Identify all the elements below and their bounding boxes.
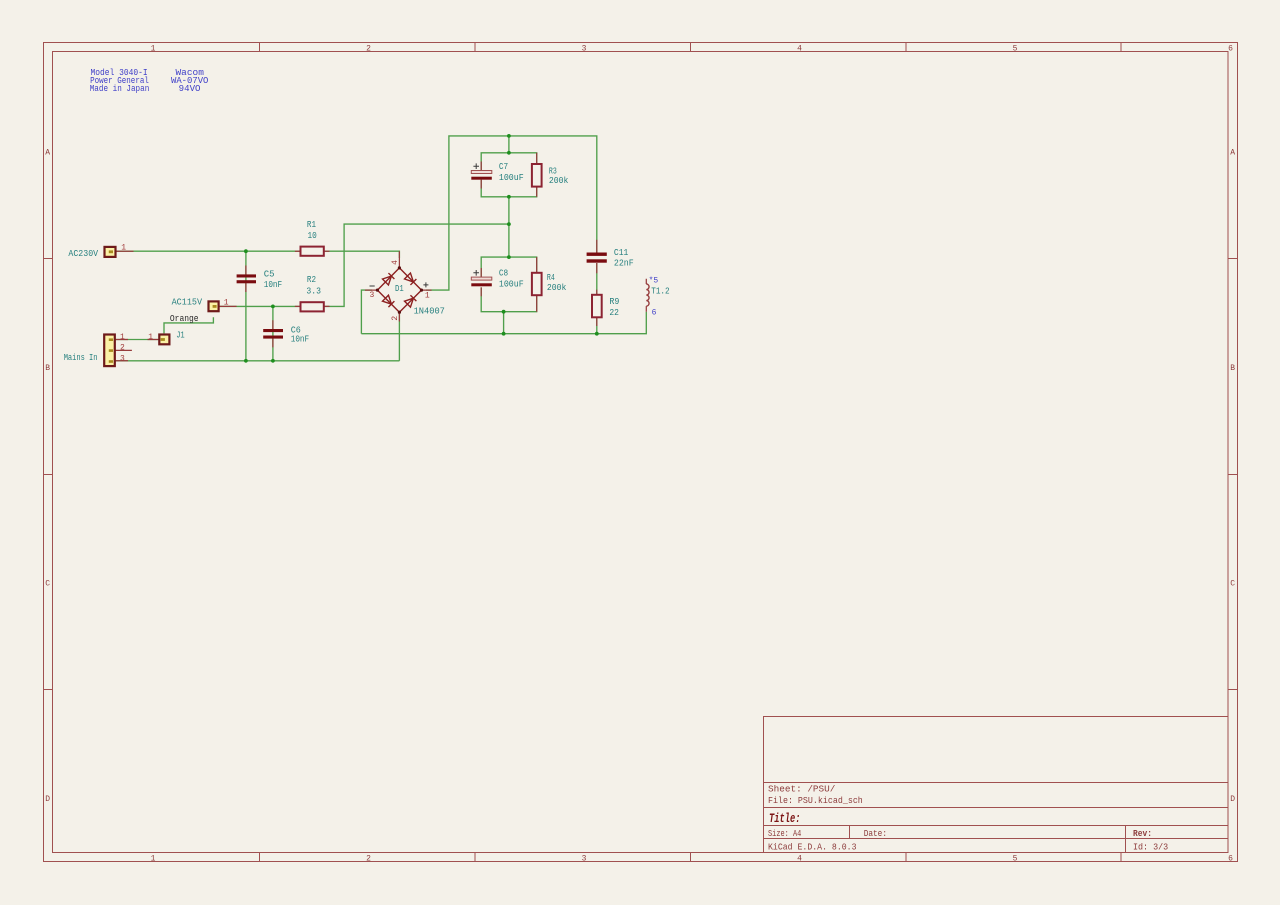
svg-text:200k: 200k (547, 283, 567, 293)
capacitor C6 (263, 329, 283, 339)
svg-text:6: 6 (1228, 44, 1233, 53)
svg-text:R2: R2 (307, 275, 316, 285)
wires (green) (116, 136, 646, 361)
svg-text:2: 2 (391, 316, 400, 321)
svg-text:10nF: 10nF (291, 335, 310, 345)
pin stubs R1 (295, 250, 330, 252)
svg-text:6: 6 (1228, 855, 1233, 864)
D1 minus sign (370, 285, 375, 287)
svg-text:5: 5 (1013, 855, 1018, 864)
svg-text:3: 3 (370, 291, 375, 300)
pin number texts (120, 244, 430, 364)
svg-text:10: 10 (308, 231, 317, 241)
inductor T1.2 coil (646, 284, 649, 306)
pin stubs T1.2 (645, 279, 647, 312)
column numbers bottom (151, 855, 1234, 864)
svg-text:C8: C8 (499, 269, 508, 279)
svg-text:Title:: Title: (769, 812, 801, 826)
D1 plus sign (423, 282, 428, 287)
svg-text:A: A (1230, 148, 1235, 157)
svg-text:4: 4 (797, 855, 802, 864)
svg-text:File: PSU.kicad_sch: File: PSU.kicad_sch (768, 796, 863, 806)
svg-text:22nF: 22nF (614, 258, 634, 268)
svg-text:22: 22 (609, 308, 619, 318)
svg-text:R3: R3 (549, 166, 557, 176)
svg-text:Date:: Date: (864, 829, 887, 839)
wire AC230V to R1 (117, 250, 301, 252)
wire D1 pin1 up to top rail and C11 (426, 136, 597, 290)
svg-text:4: 4 (797, 44, 802, 53)
row letters left (45, 148, 50, 804)
D1 diode bottom-right (405, 295, 417, 307)
pin stubs C5 (245, 266, 247, 293)
svg-text:C: C (45, 579, 50, 588)
svg-text:T1.2: T1.2 (651, 286, 670, 296)
svg-text:Orange: Orange (170, 314, 199, 324)
pin stub J1 (148, 339, 162, 341)
wire minus bus (361, 312, 646, 334)
capacitor C11 (587, 253, 607, 263)
pin stubs R2 (295, 305, 330, 307)
wire C6 column (272, 306, 274, 360)
svg-text:100uF: 100uF (499, 173, 524, 183)
svg-text:3.3: 3.3 (306, 287, 321, 297)
svg-text:A: A (45, 148, 50, 157)
svg-text:1: 1 (148, 333, 153, 342)
row letters right (1230, 148, 1235, 804)
svg-text:Sheet: /PSU/: Sheet: /PSU/ (768, 785, 835, 795)
svg-text:3: 3 (582, 44, 587, 53)
capacitor C8 polarized (471, 270, 492, 286)
svg-text:2: 2 (366, 44, 371, 53)
title block outline (764, 717, 1229, 853)
wire orange net (164, 317, 213, 333)
capacitor C5 (237, 274, 256, 283)
svg-text:C11: C11 (614, 248, 628, 258)
pin stubs C7 (480, 162, 482, 189)
frame division ticks bottom (260, 853, 1122, 862)
svg-text:Rev:: Rev: (1133, 829, 1152, 839)
pin stubs R9 (596, 290, 598, 326)
D1 diode bottom-left (383, 295, 395, 307)
svg-text:200k: 200k (549, 176, 569, 186)
svg-text:1N4007: 1N4007 (414, 307, 445, 317)
svg-text:10nF: 10nF (264, 280, 283, 290)
wire C7 box (481, 136, 537, 257)
pin stubs R4 (536, 257, 538, 312)
svg-text:1: 1 (151, 855, 156, 864)
wire D1 pin2 down (398, 312, 400, 361)
svg-text:D: D (1230, 795, 1235, 804)
svg-text:KiCad E.D.A. 8.0.3: KiCad E.D.A. 8.0.3 (768, 843, 857, 853)
pin stub AC115V (216, 305, 237, 307)
connector mains in (104, 335, 115, 367)
connector AC115V (209, 301, 219, 311)
svg-text:R1: R1 (307, 220, 316, 230)
pin stubs C8 (480, 268, 482, 296)
frame division ticks right (1228, 259, 1238, 690)
svg-text:C7: C7 (499, 162, 508, 172)
svg-text:1: 1 (425, 291, 430, 300)
D1 diode top-left (383, 273, 395, 285)
D1 vertex dots (376, 266, 423, 314)
wire D1 pin3 to minus bus (361, 290, 372, 334)
pin stubs C6 (272, 320, 274, 347)
resistor R2 (301, 302, 324, 311)
svg-text:C: C (1230, 579, 1235, 588)
svg-text:AC115V: AC115V (172, 297, 203, 307)
svg-text:Made in Japan: Made in Japan (90, 84, 150, 94)
connector AC230V (105, 247, 116, 257)
svg-text:Mains In: Mains In (64, 353, 98, 363)
title block row dividers (764, 783, 1229, 839)
pin stubs mains connector (113, 340, 132, 361)
svg-text:3: 3 (120, 354, 125, 363)
svg-text:3: 3 (582, 855, 587, 864)
svg-text:4: 4 (391, 260, 400, 265)
frame division ticks left (44, 259, 53, 690)
svg-text:6: 6 (652, 309, 657, 318)
svg-text:Size: A4: Size: A4 (768, 829, 801, 839)
column numbers top (151, 44, 1234, 53)
resistor R9 (592, 295, 602, 318)
svg-text:1: 1 (224, 299, 229, 308)
svg-text:100uF: 100uF (499, 280, 524, 290)
svg-text:1: 1 (120, 333, 125, 342)
svg-text:C5: C5 (264, 270, 275, 280)
connector J1 square (159, 335, 169, 345)
note text wacom (171, 68, 208, 94)
resistor R1 (301, 247, 324, 256)
frame division ticks top (260, 43, 1122, 52)
pin stub AC230V (113, 250, 134, 252)
bridge rectifier D1 diamond (377, 268, 421, 312)
resistor R4 (532, 273, 542, 295)
wire mains pin1 to J1 (116, 339, 158, 341)
component pin stubs (dark red) (113, 153, 647, 361)
capacitor C7 polarized (471, 163, 492, 179)
svg-text:Id: 3/3: Id: 3/3 (1133, 843, 1168, 853)
junction dots (244, 134, 599, 363)
pin stubs C11 (596, 240, 598, 274)
wire R2 up to C7C8 mid node (324, 224, 509, 306)
svg-text:5: 5 (1013, 44, 1018, 53)
svg-text:D: D (45, 795, 50, 804)
wire C11 to R9 (596, 263, 598, 334)
svg-text:*5: *5 (649, 277, 659, 286)
svg-text:1: 1 (151, 44, 156, 53)
resistor R3 (532, 164, 542, 187)
svg-text:1: 1 (121, 244, 126, 253)
pin stubs D1 (365, 251, 432, 321)
wire R1 to D1 pin4 corner (324, 251, 400, 258)
wire mains pin3 bottom bus (116, 360, 400, 362)
svg-text:2: 2 (366, 855, 371, 864)
note text model (90, 68, 150, 94)
title block column dividers (850, 826, 1126, 853)
pin stubs R3 (536, 153, 538, 197)
wire C8 box (481, 257, 537, 334)
svg-text:94VO: 94VO (179, 84, 201, 94)
svg-text:AC230V: AC230V (68, 249, 98, 259)
D1 diode top-right (405, 273, 417, 285)
svg-text:D1: D1 (395, 284, 404, 294)
svg-text:2: 2 (120, 343, 125, 352)
svg-text:R4: R4 (547, 273, 555, 283)
svg-text:J1: J1 (176, 330, 185, 340)
wire AC115V to R2 (220, 305, 301, 307)
wire C5 column (245, 251, 247, 361)
svg-text:B: B (45, 364, 50, 373)
svg-text:B: B (1230, 364, 1235, 373)
svg-text:R9: R9 (609, 297, 619, 307)
